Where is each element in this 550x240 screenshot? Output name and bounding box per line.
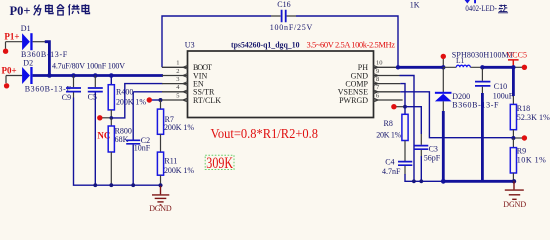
P0+ terminal stub (6, 76, 22, 84)
svg-text:R8: R8 (384, 119, 393, 128)
resistor R18 (510, 96, 550, 138)
wire VIN rail (33, 74, 163, 77)
svg-text:2: 2 (176, 68, 179, 75)
P1+ terminal stub (6, 42, 23, 49)
wire C4 corner to right ground rail (405, 174, 443, 181)
wire L1 to VCC5 corner (482, 67, 513, 96)
pin 4 SS/TR (162, 84, 215, 97)
svg-text:R11: R11 (164, 156, 177, 165)
wire COMP net (400, 84, 405, 115)
junction C10 node (480, 65, 484, 69)
svg-text:P1+: P1+ (4, 32, 19, 42)
capacitor C5 (88, 76, 103, 186)
svg-text:9: 9 (376, 68, 379, 75)
node stub right red dot (513, 66, 522, 68)
svg-text:C9: C9 (62, 93, 71, 102)
node stub red dot above D200 (442, 59, 444, 68)
svg-text:20K 1%: 20K 1% (376, 131, 401, 140)
svg-text:Vout=0.8*R1/R2+0.8: Vout=0.8*R1/R2+0.8 (211, 127, 319, 142)
resistor R8 (376, 114, 408, 161)
ground DGND left (152, 186, 169, 205)
svg-text:200K 1%: 200K 1% (164, 123, 194, 132)
wire D200 to ground (442, 111, 445, 181)
pin 5 RT/CLK (162, 92, 221, 105)
pin 3 EN (162, 76, 204, 89)
wire BOOT loop left (162, 16, 271, 67)
svg-text:P0+: P0+ (10, 4, 31, 18)
svg-text:C10: C10 (494, 82, 507, 91)
svg-text:100uF: 100uF (493, 91, 514, 100)
svg-text:D1: D1 (21, 24, 31, 33)
svg-text:1K: 1K (410, 0, 420, 9)
svg-text:R800: R800 (115, 126, 132, 135)
capacitor C10 (475, 69, 514, 101)
svg-text:P0+: P0+ (2, 65, 17, 75)
wire GND pin9 to ground (400, 76, 415, 182)
capacitor C3 (414, 134, 441, 163)
svg-text:tps54260-q1_dgq_10: tps54260-q1_dgq_10 (231, 40, 300, 50)
pin 2 VIN (162, 68, 207, 81)
svg-text:R18: R18 (517, 104, 530, 113)
svg-text:56pF: 56pF (424, 154, 441, 163)
annotation P0+ header (10, 4, 31, 18)
junction ground rail dots (93, 183, 97, 187)
node EN divider (100, 117, 112, 119)
annotation 309K (205, 155, 234, 169)
wire COMP branch to C3 (405, 107, 421, 134)
svg-text:RT/CLK: RT/CLK (193, 96, 221, 105)
hanzi 为电台供电 (34, 4, 90, 15)
svg-text:200K 1%: 200K 1% (116, 97, 146, 106)
inductor L1 (443, 51, 514, 68)
wire C3 to ground (420, 156, 422, 181)
LED (cropped) (465, 0, 476, 4)
svg-text:C5: C5 (88, 93, 97, 102)
junction right rail dots (412, 179, 416, 183)
wire VSENSE feedback (400, 92, 513, 138)
svg-text:10nF: 10nF (134, 144, 151, 153)
resistor R9 (510, 138, 546, 181)
svg-text:4.7uF/80V 100nF 100V: 4.7uF/80V 100nF 100V (52, 62, 125, 71)
junction rail-R400 (109, 73, 114, 78)
svg-text:U3: U3 (185, 41, 195, 50)
svg-text:PWRGD: PWRGD (339, 96, 368, 105)
capacitor C4 (382, 158, 412, 176)
svg-text:10: 10 (376, 60, 383, 67)
capacitor C9 (62, 76, 81, 102)
resistor R11 (157, 152, 194, 185)
wire RT/CLK stub (149, 99, 160, 101)
svg-text:3: 3 (176, 76, 179, 83)
svg-text:4.7nF: 4.7nF (382, 167, 401, 176)
pin 6 PWRGD (339, 92, 402, 105)
svg-text:8: 8 (376, 76, 379, 83)
op-amp U3 IC body (188, 51, 374, 118)
svg-text:D2: D2 (23, 58, 33, 67)
svg-text:3.5~60V 2.5A 100k-2.5MHz: 3.5~60V 2.5A 100k-2.5MHz (307, 40, 396, 50)
svg-text:R9: R9 (517, 147, 526, 156)
svg-text:100nF/25V: 100nF/25V (270, 23, 313, 32)
pin 7 VSENSE (338, 84, 401, 97)
node feedback (513, 137, 522, 139)
node COMP branch red dot (394, 106, 405, 108)
capacitor C16 (270, 0, 313, 32)
svg-text:B360B-13-F: B360B-13-F (452, 100, 499, 109)
wire D1 to rail (45, 42, 50, 76)
svg-text:200K 1%: 200K 1% (164, 166, 194, 175)
junction rail-D1 (47, 73, 52, 78)
wire C10 to ground (481, 93, 484, 181)
svg-text:C3: C3 (429, 144, 438, 153)
wire right ground rail thick (443, 180, 514, 183)
wire PH thick (398, 66, 443, 69)
svg-text:5: 5 (176, 92, 179, 99)
resistor R7 (157, 100, 194, 152)
junction rail-C9 (71, 73, 76, 78)
power port VCC5 (507, 50, 527, 65)
resistor R800 (108, 118, 132, 185)
svg-text:DGND: DGND (503, 200, 526, 209)
svg-text:L1: L1 (456, 56, 465, 65)
C16 pin stubs (271, 15, 296, 17)
svg-text:C16: C16 (277, 0, 290, 9)
C16 plates (282, 10, 286, 22)
wire C9 down + left ground rail (74, 98, 161, 186)
svg-text:DGND: DGND (149, 204, 172, 213)
pin 10 PH (358, 60, 398, 73)
svg-text:C4: C4 (385, 158, 394, 167)
svg-text:10K 1%: 10K 1% (517, 156, 546, 165)
svg-text:52.3K 1%: 52.3K 1% (517, 113, 550, 122)
diode D200 (435, 67, 499, 111)
capacitor C2 (126, 92, 151, 185)
wire EN (111, 84, 162, 118)
resistor R400 (108, 76, 146, 118)
wire SS/TR (133, 91, 162, 93)
ground DGND right (505, 181, 524, 199)
svg-text:309K: 309K (206, 155, 233, 172)
junction rail-C5 (93, 73, 98, 78)
svg-text:0402-LED-: 0402-LED- (465, 4, 497, 13)
svg-text:VCC5: VCC5 (507, 50, 527, 59)
junction PH node (396, 65, 400, 69)
pin 9 GND (351, 68, 400, 81)
svg-text:1: 1 (176, 60, 179, 67)
pin 8 COMP (345, 76, 400, 89)
wire BOOT loop right (296, 16, 398, 67)
pin 1 BOOT (162, 60, 212, 73)
